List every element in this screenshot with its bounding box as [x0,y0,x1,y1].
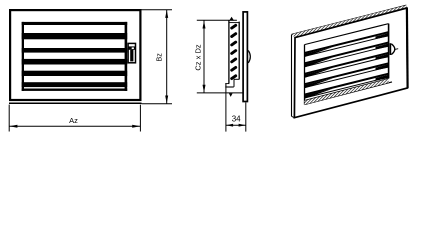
dimension 34: extension line right [245,102,247,131]
svg-text:34: 34 [232,115,241,124]
side view: slat blob 2 [232,34,236,37]
side view: channel back line [238,22,240,80]
side view: slat blob 1 [232,25,236,28]
slat 5 right end wedge [376,75,389,81]
slat 3 thin line [305,56,389,77]
side view: channel bottom step [234,78,239,80]
top face hatched band [292,5,407,37]
Cz x Dz: bottom arrowhead [203,85,206,93]
dimension 34: line [226,124,246,126]
inner grille: right border [125,22,128,91]
Cz x Dz: extension line bottom [197,92,243,94]
slat 5 left end wedge [305,89,333,99]
latch (front view) [128,43,135,62]
slat band 1 (top border) [22,22,128,25]
3D knob bar [389,43,391,55]
inner grille: left border [22,22,24,91]
dimension 34: right arrowhead [239,124,246,127]
side view: front face line [228,20,230,83]
slat 2 thin line [305,46,389,67]
3D knob tick [395,48,398,51]
slat 2 heavy line [305,43,389,64]
side view: top slat triangle [229,17,234,21]
side view: bottom line [225,86,234,88]
inner grille bottom border [22,89,128,91]
outer bottom-left join [292,116,295,117]
side view: slat blob 3 [232,42,236,45]
slat 2 left end wedge [305,57,333,67]
side view: slat blob 5 [232,59,236,62]
side view: bottom lip vertical [225,83,227,87]
slat 4 right end wedge [376,64,389,70]
side view: bottom slat triangle [229,93,233,97]
right edge emphasis [406,8,409,88]
inner opening left line [304,45,306,105]
inner opening right line [388,24,390,79]
slat 4 thin line [305,67,389,88]
slat band 6 [22,82,128,87]
slat 4 heavy line [305,63,389,84]
side view: channel bottom vertical [233,79,235,87]
3D knob bulge [391,44,395,55]
inner opening top line [305,24,389,45]
dimension Bz: extension line bottom [142,103,173,105]
side view: bottom lip step [225,83,229,85]
Cz x Dz: dimension line [203,20,205,93]
slat 1 thin line [305,36,389,57]
outer frame [10,10,140,100]
slat 3 heavy line [305,53,389,74]
dimension 34: extension line left [225,87,227,131]
side view: mounting plate [243,12,247,102]
Cz x Dz: extension line top [197,19,237,21]
side view: slat blob 7 [232,76,236,79]
svg-text:Bz: Bz [155,53,164,62]
slat 1 heavy line [305,32,389,53]
inner opening bottom line [305,82,393,105]
slat 3 left end wedge [305,68,333,78]
dimension Az: extension line left [8,105,10,132]
frame bottom second line [9,102,142,104]
dimension Bz: bottom arrowhead [165,96,168,104]
front face [294,8,407,118]
slat band 5 [22,71,128,76]
outer left line (frame thickness) [291,34,293,116]
slat 1 right end wedge [376,33,389,39]
slat 1 left end wedge [305,47,333,57]
svg-text:Cz x Dz: Cz x Dz [193,44,202,71]
slat band 2 [22,33,128,39]
svg-text:Az: Az [69,116,78,125]
Cz x Dz: top arrowhead [203,21,206,29]
slat 3 right end wedge [376,54,389,60]
side view: knob bulge [248,50,250,63]
dimension Az: right arrowhead [132,125,140,128]
slat 5 heavy line [305,74,389,95]
dimension 34: left arrowhead [226,124,233,127]
slat band 3 [22,48,128,53]
slat 4 left end wedge [305,78,333,88]
slat band 4 [22,59,128,65]
dimension Az: left arrowhead [9,125,17,128]
side view: slat blob 6 [232,67,236,70]
side view: second top line [229,22,239,24]
dimension Bz: top arrowhead [165,10,168,18]
dimension Az: extension line right [139,105,141,132]
side view: slat blob 4 [232,51,236,54]
dimension Bz: extension line top [142,9,173,11]
outer top line (frame thickness) [292,5,407,34]
slat 5 thin line [305,77,389,98]
dimension Bz: line [166,10,168,104]
bottom hatched band [305,78,389,104]
dimension Az: line [9,125,140,127]
slat 2 right end wedge [376,44,389,50]
